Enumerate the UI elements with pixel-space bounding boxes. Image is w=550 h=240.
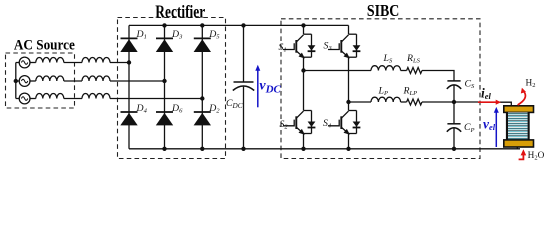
inductor phase b line: [82, 76, 110, 81]
node neutral junction: [14, 79, 18, 83]
inductor phase c line: [82, 94, 110, 99]
arrow voltage v_DC (blue): [255, 65, 260, 108]
node phase a / leg 1: [127, 60, 131, 64]
wire rectifier leg 3: [201, 25, 203, 148]
wire S3 emitter to node B: [348, 57, 350, 102]
node bottom Cp: [452, 147, 456, 151]
wire rectifier leg 2: [164, 25, 166, 148]
wire S2 emitter to bottom rail: [303, 134, 305, 149]
node bottom leg 2: [162, 147, 166, 151]
node Cs bottom junction: [452, 100, 456, 104]
AC source Vc: [19, 93, 30, 104]
electrolyzer cell stack: [506, 112, 530, 140]
svg-text:Rectifier: Rectifier: [155, 3, 205, 22]
arrow voltage v_el (blue): [494, 107, 499, 147]
diode D6: [156, 112, 173, 125]
diode D3: [156, 38, 173, 52]
wire Cdc branch: [243, 25, 245, 148]
capacitor CS: [447, 81, 461, 89]
wire node B to S4 collector: [348, 102, 350, 111]
SIBC dashed box: [281, 19, 480, 159]
inductor phase c source: [36, 94, 64, 99]
capacitor CDC: [233, 82, 254, 91]
wire phase c mid: [64, 98, 82, 100]
inductor LS: [371, 66, 401, 71]
diode D1: [120, 38, 137, 52]
node bottom S4: [346, 147, 350, 151]
wire electrolyzer negative tick: [516, 147, 518, 149]
inductor phase a source: [36, 58, 64, 63]
electrolyzer top plate: [504, 106, 534, 113]
AC source dashed box: [6, 53, 75, 108]
IGBT S3: [328, 25, 360, 58]
wire node B to Lp: [349, 101, 372, 103]
svg-text:AC Source: AC Source: [14, 37, 75, 54]
wire DC minus rail: [129, 148, 520, 150]
node phase b / leg 2: [162, 79, 166, 83]
wire electrolyzer positive lead: [500, 102, 512, 106]
inductor phase a line: [82, 58, 110, 63]
wire phase a mid: [64, 62, 82, 64]
wire node A to S2 collector: [303, 71, 305, 111]
wire Cs to node B line: [453, 85, 455, 102]
wire phase b to leg 2: [110, 80, 165, 82]
arrow H2 outlet (red): [518, 88, 526, 105]
node bottom S2: [301, 147, 305, 151]
electrolyzer bottom plate: [504, 140, 534, 147]
diode D2: [194, 112, 211, 125]
wire rectifier leg 1: [128, 25, 130, 148]
node rail Cdc: [241, 23, 245, 27]
svg-text:SIBC: SIBC: [367, 2, 399, 21]
diode D4: [120, 112, 137, 125]
wire Cp branch: [453, 102, 455, 149]
AC source Vb: [19, 76, 30, 87]
wire DC plus rail: [129, 24, 349, 26]
wire S4 emitter to bottom rail: [348, 134, 350, 149]
AC source Va: [19, 57, 30, 68]
IGBT S1: [283, 25, 315, 58]
resistor RLP: [407, 99, 422, 105]
wire Rlp to output: [422, 101, 479, 103]
node A junction: [301, 68, 305, 72]
wire node A to Ls: [304, 70, 372, 72]
arrow H2O inlet (red): [519, 149, 527, 159]
node bottom leg 3: [200, 147, 204, 151]
wire phase b to inductor: [30, 80, 36, 82]
node rail leg 2: [162, 23, 166, 27]
node rail leg 3: [200, 23, 204, 27]
IGBT S2: [283, 111, 315, 135]
wire phase c to inductor: [30, 98, 36, 100]
wire S1 emitter to node A: [303, 57, 305, 70]
IGBT S4: [328, 111, 360, 135]
wire phase b mid: [64, 80, 82, 82]
wire phase a to inductor: [30, 62, 36, 64]
node rail S1: [301, 23, 305, 27]
node B junction: [346, 100, 350, 104]
neutral bus wire: [16, 63, 19, 99]
inductor phase b source: [36, 76, 64, 81]
diode D5: [194, 38, 211, 52]
capacitor CP: [447, 124, 461, 132]
inductor LP: [371, 97, 401, 102]
wire Rls to Cs corner: [422, 71, 454, 81]
node bottom Cdc: [241, 147, 245, 151]
arrow current i_el (red): [478, 100, 501, 105]
wire Ls to Rls: [401, 70, 407, 72]
wire phase a to leg 1: [110, 62, 129, 64]
wire phase c to leg 3: [110, 98, 202, 100]
node phase c / leg 3: [200, 96, 204, 100]
rectifier dashed box: [118, 18, 226, 159]
wire Lp to Rlp: [401, 101, 407, 103]
resistor RLS: [407, 68, 422, 74]
